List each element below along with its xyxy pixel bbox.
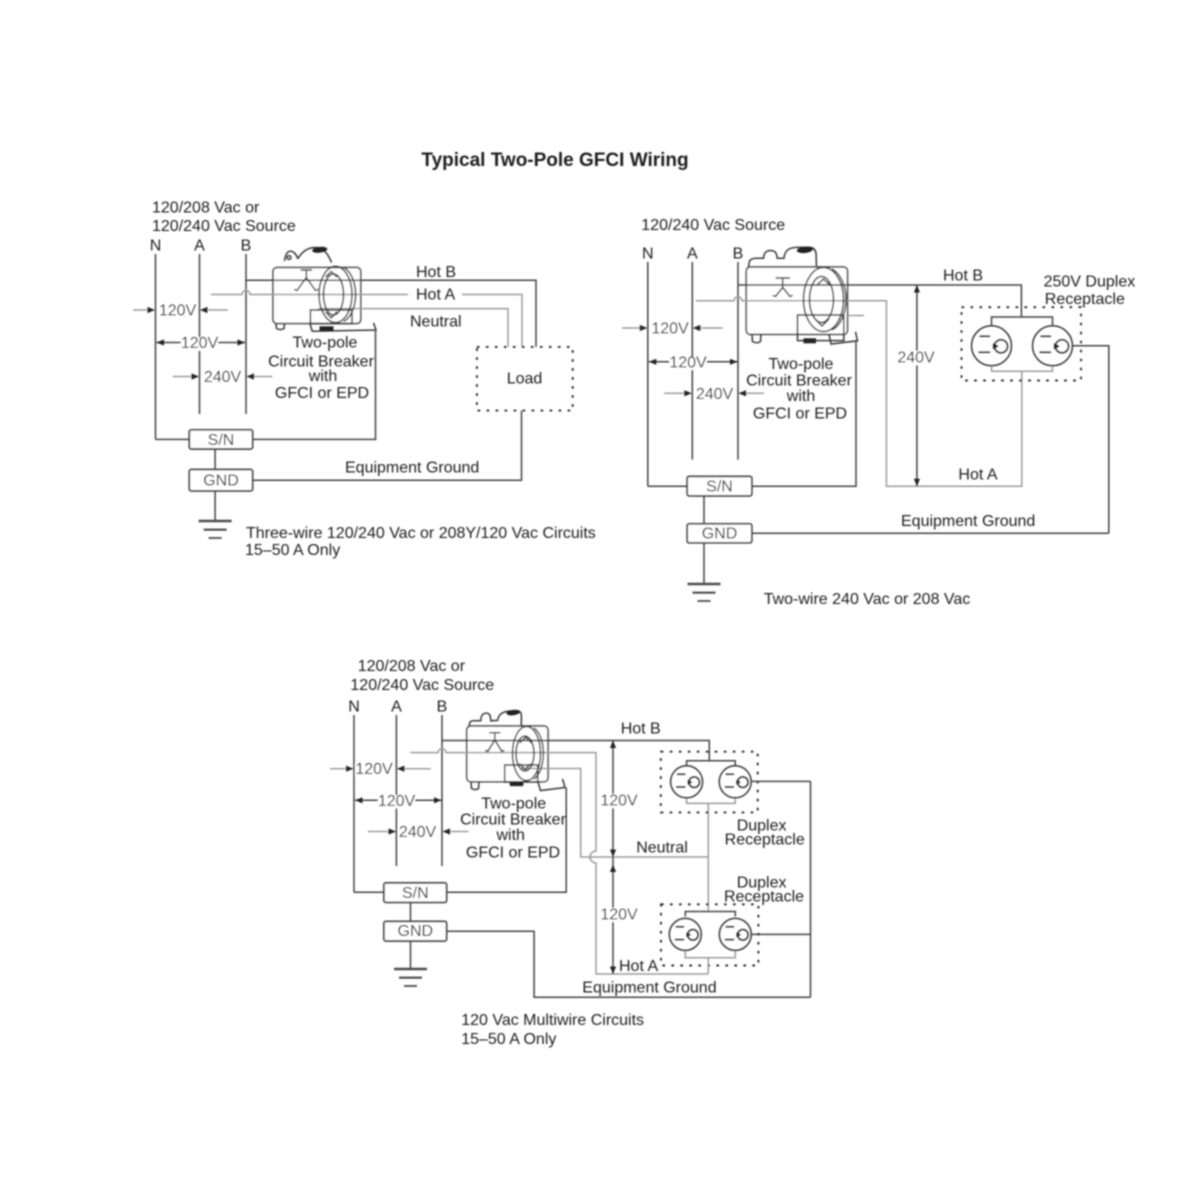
svg-text:120/240 Vac Source: 120/240 Vac Source — [641, 217, 785, 234]
circuit breaker CB2: trip chevron — [773, 278, 793, 297]
svg-text:with: with — [495, 827, 524, 844]
circuit breaker CB3: dark handle cap — [506, 709, 520, 716]
wire: B feeder (D3) — [441, 715, 443, 866]
svg-text:240V: 240V — [204, 369, 242, 386]
svg-text:S/N: S/N — [706, 479, 733, 496]
receptacle R2: internal bus top — [687, 761, 736, 766]
circuit breaker CB1: CT toroid — [319, 267, 352, 323]
S/N box (D2) — [687, 476, 752, 496]
circuit breaker CB2: handle/toggle top — [749, 247, 817, 267]
svg-text:N: N — [348, 699, 360, 716]
wire: neutral stub (D2) — [848, 315, 865, 317]
svg-text:240V: 240V — [897, 350, 935, 367]
GND box (D2) — [687, 524, 752, 543]
svg-text:Hot A: Hot A — [416, 287, 455, 304]
svg-text:GFCI or EPD: GFCI or EPD — [275, 385, 369, 402]
wire: equipment ground riser (D3) — [810, 781, 812, 997]
svg-text:GFCI or EPD: GFCI or EPD — [753, 406, 847, 423]
svg-text:240V: 240V — [696, 386, 734, 403]
wire: receptacle ground to equipment ground (D2) — [1073, 346, 1109, 534]
wire: Neutral (D1) — [318, 309, 508, 347]
circuit breaker CB1: GFCI module box — [310, 310, 352, 324]
svg-text:Two-pole: Two-pole — [481, 796, 546, 813]
svg-text:with: with — [308, 368, 337, 385]
duplex receptacle box 2 (dashed) — [661, 904, 758, 965]
wire: N feeder (D2) — [647, 262, 649, 486]
svg-text:N: N — [150, 238, 162, 255]
S/N box (D1) — [189, 430, 252, 449]
receptacle R1: left outlet — [972, 326, 1012, 366]
wire: Hot A (D3) with hop over B feeder and neutral — [410, 749, 708, 974]
svg-text:Hot B: Hot B — [943, 268, 983, 285]
svg-text:GFCI or EPD: GFCI or EPD — [466, 845, 560, 862]
dimension 120V N-A (D3) — [330, 768, 347, 770]
svg-text:Circuit Breaker: Circuit Breaker — [460, 812, 566, 829]
svg-text:120V: 120V — [600, 906, 638, 923]
svg-text:Two-pole: Two-pole — [769, 356, 834, 373]
svg-text:250V Duplex: 250V Duplex — [1044, 274, 1136, 291]
wire: GND to earth (D2) — [703, 543, 705, 584]
wire: A feeder (D3) — [395, 715, 397, 866]
circuit breaker CB1: bottom foot — [276, 324, 285, 330]
circuit breaker CB1: bottom-right flap — [310, 323, 376, 331]
svg-text:Receptacle: Receptacle — [724, 889, 804, 906]
wire: Hot B (D2) — [738, 285, 1021, 317]
receptacle R1: internal bus bottom — [992, 366, 1053, 371]
label 120V N-B (D1) — [181, 338, 218, 351]
dimension 120V vertical upper (D3) — [612, 741, 614, 858]
GND box (D1) — [189, 470, 252, 491]
dimension 120V N-A (D1) — [133, 309, 148, 311]
svg-text:120V: 120V — [355, 761, 393, 778]
svg-text:GND: GND — [203, 473, 239, 490]
label 120V N-B (D2) — [670, 357, 707, 370]
ground symbol (D1) — [199, 521, 232, 538]
circuit breaker CB1: body — [273, 268, 361, 324]
wire: GND to equipment ground (D3) — [447, 931, 811, 997]
circuit breaker CB2: GFCI module box — [798, 315, 844, 341]
svg-text:120V: 120V — [669, 354, 707, 371]
load box (dashed) — [477, 347, 573, 411]
svg-text:120V: 120V — [600, 793, 638, 810]
circuit breaker CB3: trip chevron — [485, 733, 504, 752]
circuit breaker CB2: bottom-left foot — [752, 334, 761, 342]
wire: A feeder (D1) — [199, 254, 201, 414]
circuit breaker CB3: bottom-right flap — [538, 779, 565, 791]
svg-text:S/N: S/N — [402, 885, 429, 902]
wire: Hot B (D1) — [246, 280, 536, 347]
wire: GND to earth (D3) — [410, 941, 412, 969]
svg-text:120/240 Vac Source: 120/240 Vac Source — [350, 677, 494, 694]
circuit breaker CB3: CT toroid — [513, 727, 541, 781]
ground symbol (D2) — [688, 584, 721, 601]
ground symbol (D3) — [394, 969, 427, 986]
wire: receptacle 2 to Hot A (D3) — [707, 958, 709, 974]
svg-text:15–50 A Only: 15–50 A Only — [461, 1031, 556, 1048]
label 240V A-B (D1) — [204, 372, 242, 385]
svg-text:Hot A: Hot A — [958, 467, 997, 484]
label 240V vertical (D2) — [897, 351, 935, 365]
receptacle R3: right outlet — [719, 918, 751, 950]
dimension 120V vertical lower (D3) — [612, 857, 614, 974]
svg-text:GND: GND — [398, 923, 434, 940]
wire: S/N to GND link (D2) — [703, 496, 705, 524]
label 120V vertical lower (D3) — [600, 908, 638, 922]
svg-text:Neutral: Neutral — [410, 314, 462, 331]
label 120V N-B (D3) — [378, 795, 415, 808]
label 240V A-B (D3) — [399, 827, 437, 840]
label 120V N-A (D2) — [652, 323, 689, 336]
circuit breaker CB3: handle/toggle top — [469, 711, 521, 726]
svg-text:Circuit Breaker: Circuit Breaker — [746, 373, 852, 390]
wire: equipment ground to load (D1) — [253, 411, 522, 481]
dimension 240V A-B (D1) — [173, 376, 192, 378]
svg-text:120 Vac Multiwire Circuits: 120 Vac Multiwire Circuits — [461, 1012, 644, 1029]
dimension 120V N-A (D2) — [622, 327, 640, 329]
svg-text:GND: GND — [702, 526, 738, 543]
svg-text:120/240 Vac Source: 120/240 Vac Source — [152, 218, 296, 235]
dimension 240V vertical (D2) — [916, 285, 918, 486]
receptacle R2: left outlet — [671, 766, 703, 798]
svg-text:Typical Two-Pole GFCI Wiring: Typical Two-Pole GFCI Wiring — [421, 150, 688, 171]
svg-text:Hot A: Hot A — [619, 958, 658, 975]
receptacle R2: right outlet — [719, 766, 751, 798]
wire: Hot A (D2) with hop over B feeder — [696, 297, 1022, 486]
wire: N feeder to S/N box (D3) — [354, 891, 384, 893]
svg-text:120V: 120V — [181, 335, 219, 352]
svg-text:120V: 120V — [651, 321, 689, 338]
wire: B feeder (D2) — [737, 262, 739, 460]
svg-text:Hot B: Hot B — [416, 264, 456, 281]
svg-text:Hot B: Hot B — [621, 721, 661, 738]
circuit breaker CB2: CT toroid — [804, 268, 844, 332]
wire: S/N to GND link (D3) — [410, 902, 412, 921]
label 120V N-A (D3) — [356, 764, 393, 777]
svg-text:120/208 Vac or: 120/208 Vac or — [358, 658, 466, 675]
receptacle R3: internal bus top — [685, 912, 735, 917]
wire: receptacle 1 ground lead (D3) — [751, 780, 810, 782]
250V duplex receptacle box (dashed) — [962, 307, 1082, 380]
svg-text:S/N: S/N — [208, 432, 235, 449]
svg-text:Equipment Ground: Equipment Ground — [582, 980, 716, 997]
receptacle R3: internal bus bottom — [685, 950, 735, 957]
wire: Neutral (D3) — [520, 769, 708, 858]
dimension 120V N-B (D2) — [649, 361, 738, 363]
dimension 240V A-B (D3) — [368, 831, 389, 833]
wire: S/N to GND link (D1) — [214, 449, 216, 470]
svg-text:120V: 120V — [378, 793, 416, 810]
svg-text:with: with — [786, 388, 815, 405]
circuit breaker CB2: dark nub — [804, 338, 817, 343]
circuit breaker CB2: body — [746, 267, 847, 334]
svg-text:240V: 240V — [399, 824, 437, 841]
dimension 120V N-B (D3) — [355, 799, 442, 801]
circuit breaker CB1: handle/toggle top — [285, 251, 298, 261]
circuit breaker CB1: dark nub — [320, 326, 334, 331]
wire: N feeder to S/N box (D1) — [156, 438, 190, 440]
svg-text:Equipment Ground: Equipment Ground — [901, 513, 1035, 530]
circuit breaker CB3: dark nub — [510, 781, 524, 786]
svg-text:B: B — [437, 699, 448, 716]
wire: N feeder (D1) — [155, 254, 157, 439]
circuit breaker CB2: bottom-right flap — [829, 332, 858, 344]
svg-text:Equipment Ground: Equipment Ground — [345, 460, 479, 477]
GND box (D3) — [384, 921, 447, 941]
svg-text:120V: 120V — [159, 303, 197, 320]
wire: equipment ground (D2) — [752, 532, 1109, 534]
svg-text:Receptacle: Receptacle — [725, 832, 805, 849]
wire: Hot B (D3) — [442, 741, 709, 761]
circuit breaker CB2: dark handle cap — [797, 246, 813, 253]
label 120V N-A (D1) — [159, 305, 196, 318]
svg-text:A: A — [194, 238, 205, 255]
svg-text:Load: Load — [507, 371, 543, 388]
wire: A feeder (D2) — [691, 262, 693, 460]
svg-text:A: A — [391, 699, 402, 716]
wire: Hot A (D1) with hop over B feeder — [211, 291, 522, 347]
wire: S/N to breaker neutral (D1) — [253, 331, 376, 439]
wire: B feeder (D1) — [245, 254, 247, 414]
wire: S/N to breaker neutral (D2) — [752, 341, 856, 486]
svg-text:15–50 A Only: 15–50 A Only — [245, 542, 340, 559]
svg-text:B: B — [733, 246, 744, 263]
S/N box (D3) — [384, 883, 447, 903]
svg-text:120/208 Vac or: 120/208 Vac or — [152, 200, 260, 217]
svg-text:N: N — [642, 246, 654, 263]
wire: N feeder to S/N box (D2) — [648, 485, 687, 487]
wire: neutral riser between receptacles (D3) — [707, 803, 709, 911]
receptacle R1: internal bus top — [992, 317, 1053, 326]
duplex receptacle box 1 (dashed) — [661, 752, 758, 813]
circuit breaker CB3: bottom-left foot — [471, 782, 479, 790]
wire: S/N to breaker neutral (D3) — [447, 788, 567, 893]
receptacle R2: internal bus bottom — [687, 798, 736, 804]
label 240V A-B (D2) — [696, 388, 734, 401]
receptacle R3: left outlet — [669, 918, 701, 950]
wire: GND to earth (D1) — [214, 491, 216, 521]
svg-text:A: A — [687, 246, 698, 263]
svg-text:Neutral: Neutral — [636, 840, 688, 857]
circuit breaker CB3: GFCI module box — [505, 765, 538, 782]
svg-text:Two-wire 240 Vac or 208 Vac: Two-wire 240 Vac or 208 Vac — [764, 591, 971, 608]
receptacle R1: right outlet — [1033, 326, 1073, 366]
svg-text:Receptacle: Receptacle — [1045, 291, 1125, 308]
circuit breaker CB3: body — [467, 726, 548, 782]
svg-text:Three-wire 120/240 Vac or 208Y: Three-wire 120/240 Vac or 208Y/120 Vac C… — [246, 525, 596, 542]
circuit breaker CB1: dark handle cap — [312, 246, 328, 254]
wire: N feeder (D3) — [353, 715, 355, 892]
svg-text:Two-pole: Two-pole — [293, 335, 358, 352]
circuit breaker CB1: trip chevron — [294, 270, 318, 291]
label 120V vertical upper (D3) — [600, 794, 638, 808]
wire: receptacle 2 ground lead (D3) — [751, 933, 810, 935]
dimension 240V A-B (D2) — [664, 392, 685, 394]
dimension 120V N-B (D1) — [157, 342, 246, 344]
svg-text:B: B — [241, 238, 252, 255]
